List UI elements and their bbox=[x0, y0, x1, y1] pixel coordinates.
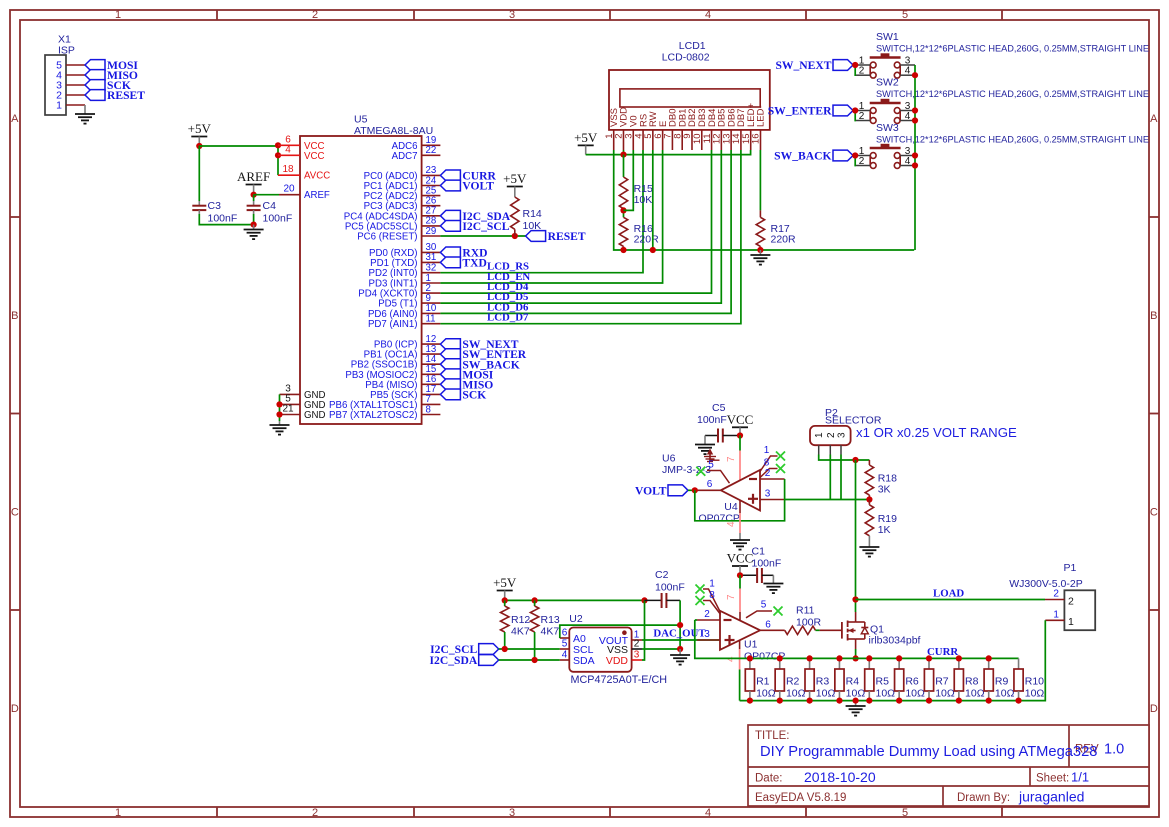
svg-text:R10: R10 bbox=[1025, 676, 1044, 688]
LCD1 pin 5 RW bbox=[643, 111, 659, 150]
svg-text:ADC7: ADC7 bbox=[392, 151, 418, 162]
junction RW gnd rail bbox=[650, 247, 656, 253]
LCD1 pin 10 DB3 bbox=[692, 109, 708, 150]
svg-text:10Ω: 10Ω bbox=[995, 688, 1015, 700]
svg-text:4K7: 4K7 bbox=[541, 626, 560, 638]
svg-text:LCD_D7: LCD_D7 bbox=[487, 312, 529, 324]
svg-text:A: A bbox=[1150, 113, 1158, 125]
net flag SW_ENTER bbox=[833, 105, 853, 116]
junction R12 SCL bbox=[502, 646, 508, 652]
wire AREF down to C4 bbox=[253, 195, 255, 201]
no-connect X U4 pin8 bbox=[776, 464, 785, 473]
resistor R2 10 ohm bbox=[775, 658, 805, 700]
U5 pin 3 GND bbox=[280, 383, 326, 401]
U1 pin 4 bbox=[725, 640, 739, 669]
svg-text:2: 2 bbox=[1068, 596, 1074, 608]
switch SW3 bbox=[856, 122, 1149, 168]
U5 pin 14 PB2 (SSOC1B) bbox=[351, 354, 441, 371]
wire VDD pin2 to rail bbox=[623, 150, 625, 155]
junction R5 top bbox=[866, 655, 872, 661]
svg-text:2: 2 bbox=[312, 9, 318, 21]
U5 pin 31 PD1 (TXD) bbox=[370, 252, 440, 269]
svg-text:SWITCH,12*12*6PLASTIC HEAD,260: SWITCH,12*12*6PLASTIC HEAD,260G, 0.25MM,… bbox=[876, 135, 1149, 145]
switch SW2 bbox=[856, 77, 1149, 124]
svg-text:R13: R13 bbox=[541, 614, 560, 626]
svg-text:6: 6 bbox=[707, 479, 713, 490]
svg-text:7: 7 bbox=[726, 456, 737, 462]
svg-text:100nF: 100nF bbox=[655, 582, 685, 594]
junction U4 output bbox=[692, 487, 698, 493]
svg-text:+5V: +5V bbox=[503, 171, 527, 186]
wire CURR rail bbox=[750, 657, 1019, 659]
junction SW1 pin1 bbox=[852, 62, 858, 68]
junction R17 gnd rail bbox=[757, 247, 763, 253]
svg-text:4: 4 bbox=[726, 521, 737, 527]
svg-text:R5: R5 bbox=[876, 676, 890, 688]
U5 pin 17 PB5 (SCK) bbox=[370, 384, 440, 401]
svg-text:1: 1 bbox=[814, 432, 825, 438]
junction VCC pin6 bbox=[275, 142, 281, 148]
resistor R10 10 ohm bbox=[1014, 658, 1044, 700]
wire DAC_OUT to U1 pin3 bbox=[642, 639, 720, 641]
svg-text:10Ω: 10Ω bbox=[816, 688, 836, 700]
LCD1 pin 16 LED- bbox=[751, 105, 767, 150]
U1 pin 7 bbox=[726, 589, 740, 621]
svg-text:3: 3 bbox=[704, 629, 710, 640]
no-connect X U4 pin5 with U6 bbox=[696, 467, 705, 476]
svg-text:21: 21 bbox=[282, 404, 294, 415]
net flag RESET bbox=[85, 90, 105, 101]
junction R9 top bbox=[986, 655, 992, 661]
U2 pin 1 VOUT bbox=[599, 629, 642, 646]
svg-text:5: 5 bbox=[902, 9, 908, 21]
resistor R14 10K bbox=[511, 197, 542, 236]
power VCC at C5 bbox=[727, 412, 754, 436]
svg-text:R14: R14 bbox=[523, 208, 542, 220]
svg-text:2: 2 bbox=[704, 609, 710, 620]
net flag RXD bbox=[440, 247, 460, 258]
resistor R9 10 ohm bbox=[984, 658, 1014, 700]
svg-text:100R: 100R bbox=[796, 617, 822, 629]
svg-text:B: B bbox=[11, 310, 18, 322]
net flag SCK bbox=[440, 389, 460, 400]
svg-text:DIY Programmable Dummy Load us: DIY Programmable Dummy Load using ATMega… bbox=[760, 744, 1097, 760]
wire VDD down to R15 bbox=[623, 155, 625, 177]
wire C3 to C4 ground bbox=[199, 214, 253, 225]
U4 pin 6 output bbox=[697, 479, 721, 490]
junction R3 bottom bbox=[807, 698, 813, 704]
svg-text:10Ω: 10Ω bbox=[786, 688, 806, 700]
svg-text:8: 8 bbox=[426, 404, 431, 415]
wire V0 jog bbox=[624, 150, 634, 210]
wire U1 pin2 sense to CURR rail bbox=[695, 619, 697, 621]
svg-text:100nF: 100nF bbox=[263, 213, 293, 225]
ground at X1 pin1 bbox=[75, 105, 95, 124]
U5 pin 30 PD0 (RXD) bbox=[369, 242, 440, 259]
junction +5V R13 bbox=[532, 597, 538, 603]
net flag SCK bbox=[85, 80, 105, 91]
LCD1 pin 7 DB0 bbox=[663, 109, 679, 150]
junction R4 top bbox=[836, 655, 842, 661]
LCD1 pin 9 DB2 bbox=[682, 109, 698, 150]
net flag SW_BACK bbox=[833, 150, 853, 161]
svg-text:10K: 10K bbox=[523, 220, 542, 232]
svg-text:PB7 (XTAL2TOSC2): PB7 (XTAL2TOSC2) bbox=[329, 410, 417, 421]
connector X1 ISP bbox=[45, 34, 85, 116]
wire U5 GND pins bbox=[279, 394, 281, 421]
svg-text:Sheet:: Sheet: bbox=[1036, 773, 1069, 785]
junction R9 bottom bbox=[986, 698, 992, 704]
power +5V at LCD bbox=[574, 130, 598, 155]
wire A0 to ground route bbox=[560, 625, 680, 638]
resistor R6 10 ohm bbox=[895, 658, 925, 700]
U4 pin 2 inverting input bbox=[760, 468, 785, 479]
svg-text:4: 4 bbox=[905, 156, 911, 167]
U1 pin 5 no-connect bbox=[746, 600, 772, 618]
wire SW_NEXT to SW1 pins 1 2 bbox=[853, 64, 856, 66]
svg-text:10K: 10K bbox=[634, 194, 653, 206]
net flag SW_BACK bbox=[440, 359, 460, 370]
svg-text:2: 2 bbox=[826, 432, 837, 438]
U5 pin 2 PD4 (XCKT0) bbox=[358, 283, 440, 300]
svg-text:SW1: SW1 bbox=[876, 31, 899, 43]
junction R4 bottom bbox=[836, 698, 842, 704]
svg-text:SCK: SCK bbox=[462, 389, 486, 402]
U5 pin 8 PB7 (XTAL2TOSC2) bbox=[329, 404, 440, 421]
wire R11 to Q1 gate bbox=[816, 629, 820, 631]
junction R2 bottom bbox=[777, 698, 783, 704]
svg-text:D: D bbox=[11, 703, 19, 715]
wire +5V rail to LCD VDD and LED+ bbox=[586, 150, 751, 155]
U5 pin 32 PD2 (INT0) bbox=[369, 263, 441, 280]
resistor R3 10 ohm bbox=[805, 658, 835, 700]
resistor R8 10 ohm bbox=[954, 658, 984, 700]
svg-text:C1: C1 bbox=[752, 546, 766, 558]
op-amp U4 OP07CP body bbox=[699, 470, 761, 525]
svg-text:16: 16 bbox=[751, 134, 762, 145]
wire P2 pin2 to divider mid bbox=[829, 455, 831, 500]
U4 pin 4 bbox=[726, 500, 740, 533]
LCD1 pin 11 DB4 bbox=[702, 109, 718, 150]
svg-text:ATMEGA8L-8AU: ATMEGA8L-8AU bbox=[354, 125, 433, 137]
junction GND pin21 bbox=[276, 411, 282, 417]
power +5V at R12 R13 bbox=[493, 575, 517, 600]
ground at C4 bbox=[244, 225, 264, 240]
junction VCC pin4 bbox=[275, 152, 281, 158]
svg-text:R2: R2 bbox=[786, 676, 800, 688]
resistor R5 10 ohm bbox=[865, 658, 895, 700]
svg-text:U6: U6 bbox=[662, 453, 676, 465]
svg-text:R6: R6 bbox=[905, 676, 919, 688]
svg-text:VOLT: VOLT bbox=[635, 484, 667, 497]
wire C4 to ground bbox=[253, 214, 255, 225]
svg-text:D: D bbox=[1150, 703, 1158, 715]
svg-text:1: 1 bbox=[1068, 616, 1074, 628]
svg-text:3K: 3K bbox=[878, 484, 891, 496]
svg-text:ISP: ISP bbox=[58, 45, 75, 57]
connector P2 SELECTOR body bbox=[810, 407, 882, 455]
svg-text:EasyEDA V5.8.19: EasyEDA V5.8.19 bbox=[755, 792, 846, 804]
net flag I2C_SDA bbox=[440, 210, 460, 221]
no-connect X U1 pin8 bbox=[696, 596, 705, 605]
svg-text:2: 2 bbox=[859, 156, 865, 167]
svg-text:SW2: SW2 bbox=[876, 77, 899, 89]
wire VCC to AVCC vertical bbox=[277, 145, 279, 175]
wire LCD ground rail bbox=[614, 150, 915, 250]
svg-text:SDA: SDA bbox=[573, 655, 595, 667]
U5 pin 12 PB0 (ICP) bbox=[374, 334, 441, 351]
wire RW pin5 to rail bbox=[652, 150, 654, 250]
ground at LCD rail bbox=[750, 250, 770, 265]
LCD1 pin 3 V0 bbox=[623, 115, 639, 150]
U5 pin 20 AREF bbox=[279, 184, 330, 202]
svg-text:20: 20 bbox=[283, 184, 295, 195]
junction R16 gnd rail bbox=[620, 247, 626, 253]
junction LOAD node bbox=[852, 596, 858, 602]
net flag I2C_SCL bbox=[440, 221, 460, 232]
LCD1 pin 14 DB7 bbox=[731, 109, 747, 150]
resistor R12 4K7 bbox=[501, 600, 531, 649]
capacitor C3 100nF bbox=[192, 200, 237, 225]
U1 pin 3 non-inverting input bbox=[697, 629, 720, 640]
svg-text:1: 1 bbox=[709, 578, 715, 589]
ground at R19 bbox=[859, 547, 879, 557]
U5 pin 15 PB3 (MOSIOC2) bbox=[345, 364, 440, 381]
svg-text:U1: U1 bbox=[744, 639, 758, 651]
U4 pin 7 bbox=[726, 451, 740, 481]
svg-text:18: 18 bbox=[282, 164, 294, 175]
svg-text:220R: 220R bbox=[771, 234, 797, 246]
U1 pin 2 inverting input bbox=[697, 609, 720, 620]
svg-text:1: 1 bbox=[764, 445, 770, 456]
svg-text:P1: P1 bbox=[1064, 562, 1077, 574]
U5 pin 26 PC3 (ADC3) bbox=[364, 196, 441, 213]
no-connect X U1 pin1 bbox=[696, 585, 705, 594]
svg-text:R3: R3 bbox=[816, 676, 830, 688]
svg-text:PD7 (AIN1): PD7 (AIN1) bbox=[368, 319, 418, 330]
U5 pin 11 PD7 (AIN1) bbox=[368, 314, 440, 331]
svg-text:R11: R11 bbox=[796, 605, 815, 617]
junction R8 bottom bbox=[956, 698, 962, 704]
svg-text:+5V: +5V bbox=[188, 121, 212, 136]
svg-text:10Ω: 10Ω bbox=[1025, 688, 1045, 700]
junction R7 top bbox=[926, 655, 932, 661]
junction R10 bottom bbox=[1015, 698, 1021, 704]
svg-text:R1: R1 bbox=[756, 676, 770, 688]
svg-text:2: 2 bbox=[859, 111, 865, 122]
junction +5V node bbox=[196, 143, 202, 149]
junction AREF node bbox=[251, 192, 257, 198]
svg-text:VCC: VCC bbox=[304, 151, 324, 162]
wire SW_ENTER to SW2 pins 1 2 bbox=[853, 110, 856, 112]
U2 pin 5 SCL bbox=[560, 638, 594, 655]
connector P1 WJ300V-5.0-2P body bbox=[1009, 562, 1095, 630]
LCD1 pin 15 LED+ bbox=[741, 103, 757, 150]
capacitor C1 100nF bbox=[740, 546, 781, 584]
ground at C1 bbox=[763, 575, 783, 593]
wire drain net vertical bbox=[855, 460, 857, 600]
svg-text:AREF: AREF bbox=[304, 190, 330, 201]
svg-text:B: B bbox=[1150, 310, 1157, 322]
svg-text:R4: R4 bbox=[846, 676, 860, 688]
svg-text:4: 4 bbox=[705, 9, 711, 21]
junction VCC C5 node bbox=[737, 432, 743, 438]
svg-text:R12: R12 bbox=[511, 614, 530, 626]
junction R14 RESET node bbox=[512, 233, 518, 239]
svg-text:RESET: RESET bbox=[107, 89, 145, 102]
capacitor C4 100nF bbox=[247, 200, 293, 225]
svg-text:29: 29 bbox=[426, 226, 437, 237]
op-amp U1 OP07CP body bbox=[720, 611, 785, 663]
connector LCD1 LCD-0802 body bbox=[609, 40, 770, 130]
junction R2 top bbox=[777, 655, 783, 661]
U5 pin 27 PC4 (ADC4SDA) bbox=[344, 206, 441, 223]
net flag MISO bbox=[440, 379, 460, 390]
wire switch common to gnd rail bbox=[914, 65, 916, 250]
U1 pin 1 no-connect bbox=[703, 578, 720, 611]
junction R1 top bbox=[747, 655, 753, 661]
P1 pin 2 bbox=[1045, 589, 1074, 608]
junction R15 R16 V0 node bbox=[620, 207, 626, 213]
svg-text:4: 4 bbox=[285, 144, 291, 155]
junction R8 top bbox=[956, 655, 962, 661]
svg-text:5: 5 bbox=[562, 638, 568, 649]
svg-text:8: 8 bbox=[709, 590, 715, 601]
U5 pin 9 PD5 (T1) bbox=[378, 293, 440, 310]
U4 pin 5 no-connect bbox=[707, 459, 730, 483]
U5 pin 4 VCC bbox=[278, 144, 324, 162]
wire I2C_SCL to U2 bbox=[499, 648, 560, 650]
svg-text:SW_BACK: SW_BACK bbox=[774, 150, 831, 163]
wire PC6 RESET to flag bbox=[440, 235, 525, 237]
junction C3 C4 ground node bbox=[251, 222, 257, 228]
wire P1 pin1 to gnd rail bbox=[1020, 620, 1046, 700]
junction R1 bottom bbox=[747, 698, 753, 704]
capacitor C2 100nF bbox=[645, 569, 685, 608]
svg-text:10Ω: 10Ω bbox=[756, 688, 776, 700]
svg-text:U2: U2 bbox=[569, 613, 583, 625]
junction A0 ground node bbox=[677, 622, 683, 628]
svg-text:2: 2 bbox=[859, 66, 865, 77]
U5 pin 24 PC1 (ADC1) bbox=[364, 175, 441, 192]
svg-text:MCP4725A0T-E/CH: MCP4725A0T-E/CH bbox=[571, 674, 668, 686]
junction GND pin5 bbox=[276, 401, 282, 407]
U5 pin 29 PC6 (RESET) bbox=[357, 226, 440, 243]
U5 pin 10 PD6 (AIN0) bbox=[368, 303, 440, 320]
wire LED- to R17 bbox=[759, 150, 761, 210]
resistor R18 3K bbox=[865, 460, 897, 500]
U5 pin 22 ADC7 bbox=[392, 145, 441, 162]
net flag MISO bbox=[85, 70, 105, 81]
U5 pin 6 VCC bbox=[278, 134, 324, 152]
svg-text:+5V: +5V bbox=[493, 575, 517, 590]
svg-text:2: 2 bbox=[765, 468, 771, 479]
svg-text:RESET: RESET bbox=[548, 230, 586, 243]
svg-text:GND: GND bbox=[304, 410, 326, 421]
net flag RESET at R14 bbox=[526, 231, 546, 242]
wire VCC to U1 pin7 bbox=[739, 575, 741, 588]
svg-text:C3: C3 bbox=[208, 200, 222, 212]
U1 pin 8 no-connect bbox=[703, 590, 721, 615]
wire +5V down to C3 bbox=[198, 146, 200, 201]
svg-text:R9: R9 bbox=[995, 676, 1009, 688]
junction R7 bottom bbox=[926, 698, 932, 704]
svg-text:LCD-0802: LCD-0802 bbox=[662, 52, 710, 64]
svg-text:5: 5 bbox=[708, 459, 714, 470]
svg-text:R8: R8 bbox=[965, 676, 979, 688]
svg-text:3: 3 bbox=[765, 489, 771, 500]
junction R6 top bbox=[896, 655, 902, 661]
net flag CURR bbox=[440, 170, 460, 181]
junction load node at R18 top bbox=[852, 457, 858, 463]
net flag TXD bbox=[440, 257, 460, 268]
junction VSS ground node bbox=[677, 646, 683, 652]
svg-text:U4: U4 bbox=[724, 501, 738, 513]
svg-text:A: A bbox=[11, 113, 19, 125]
svg-text:LED-: LED- bbox=[756, 105, 767, 127]
svg-text:I2C_SDA: I2C_SDA bbox=[430, 654, 478, 667]
svg-text:VOLT: VOLT bbox=[462, 180, 494, 193]
ground at U2 VSS bbox=[670, 649, 690, 665]
U5 pin 1 PD3 (INT1) bbox=[369, 273, 441, 290]
junction SW2 pin4 bbox=[912, 117, 918, 123]
svg-text:4K7: 4K7 bbox=[511, 626, 530, 638]
svg-text:5: 5 bbox=[902, 807, 908, 819]
LCD1 pin 4 RS bbox=[633, 114, 649, 150]
junction R13 SDA bbox=[532, 657, 538, 663]
resistor R19 1K bbox=[865, 500, 897, 548]
wire AREF to U5 bbox=[254, 194, 279, 196]
net flag SW_NEXT bbox=[440, 339, 460, 350]
junction SW1 pin4 bbox=[912, 72, 918, 78]
jumper U6 JMP-3-2-3 bbox=[662, 449, 720, 476]
wire LOAD to P1 bbox=[856, 599, 1046, 601]
net flag VOLT bbox=[440, 180, 460, 191]
svg-text:11: 11 bbox=[426, 314, 436, 325]
net flag I2C_SDA at U2 bbox=[479, 655, 499, 666]
U5 pin 25 PC2 (ADC2) bbox=[364, 185, 441, 202]
wire VDD to +5V rail bbox=[642, 600, 645, 660]
svg-text:CURR: CURR bbox=[927, 646, 958, 658]
svg-text:LCD1: LCD1 bbox=[679, 40, 706, 52]
svg-text:TXD: TXD bbox=[462, 257, 486, 270]
svg-text:C: C bbox=[1150, 507, 1158, 519]
LCD1 pin 1 VSS bbox=[604, 108, 620, 150]
junction R5 bottom bbox=[866, 698, 872, 704]
svg-text:5: 5 bbox=[761, 600, 767, 611]
svg-text:Drawn By:: Drawn By: bbox=[957, 792, 1010, 804]
junction SW3 pin3 bbox=[912, 152, 918, 158]
resistor R7 10 ohm bbox=[924, 658, 954, 700]
junction LCD VDD bbox=[620, 152, 626, 158]
svg-text:4: 4 bbox=[905, 66, 911, 77]
U4 pin 3 non-inverting input bbox=[760, 489, 785, 500]
junction SW3 pin1 bbox=[852, 152, 858, 158]
svg-text:6: 6 bbox=[562, 627, 568, 638]
svg-text:AVCC: AVCC bbox=[304, 171, 330, 182]
LCD1 pin 13 DB6 bbox=[721, 109, 737, 150]
svg-text:AREF: AREF bbox=[237, 169, 270, 184]
svg-text:DAC_OUT: DAC_OUT bbox=[653, 628, 706, 640]
U2 pin 4 SDA bbox=[560, 649, 595, 666]
U5 pin 23 PC0 (ADC0) bbox=[364, 165, 441, 182]
svg-text:4: 4 bbox=[905, 111, 911, 122]
U5 pin 28 PC5 (ADC5SCL) bbox=[345, 216, 441, 233]
svg-text:WJ300V-5.0-2P: WJ300V-5.0-2P bbox=[1009, 578, 1083, 590]
U5 pin 13 PB1 (OC1A) bbox=[364, 344, 441, 361]
U2 pin 2 VSS bbox=[607, 638, 642, 655]
wire U4 feedback loop bbox=[695, 479, 785, 521]
